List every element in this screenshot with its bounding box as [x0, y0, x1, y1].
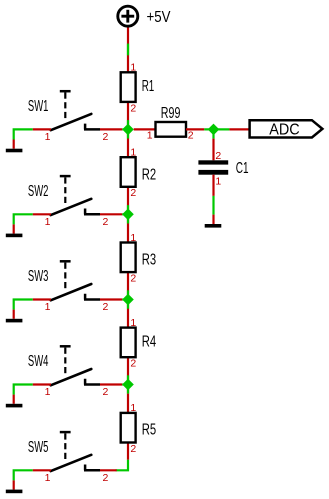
switch SW4 [51, 346, 100, 385]
svg-text:SW5: SW5 [28, 439, 49, 456]
svg-text:1: 1 [130, 232, 136, 244]
switch SW1 [51, 91, 100, 130]
wire node E green segment [204, 128, 229, 130]
svg-text:2: 2 [103, 301, 109, 313]
svg-text:2: 2 [130, 187, 136, 199]
wire R99 pin 2 to node E [186, 128, 204, 130]
wire ground to SW4 pin 1 (green) [14, 385, 33, 395]
wire ground to SW1 pin 1 (green) [14, 129, 33, 139]
junction node D (SW4) [122, 379, 134, 391]
svg-text:1: 1 [147, 129, 153, 141]
wire corner to SW5 pin 2 (green) [116, 460, 128, 471]
svg-text:2: 2 [103, 216, 109, 228]
wire SW3 pin 2 to bus [100, 298, 122, 300]
resistor R5 [121, 413, 136, 443]
resistor R2 [121, 157, 136, 187]
wire SW1 pin 2 to bus [100, 128, 122, 130]
junction node E (R99/C1/ADC) [208, 124, 220, 136]
wire C1 pin 2 lead [212, 139, 214, 161]
resistor R3 [121, 243, 136, 273]
wire node C green segment [127, 290, 129, 308]
svg-text:2: 2 [103, 386, 109, 398]
wire node D green segment [127, 375, 129, 393]
svg-text:2: 2 [130, 102, 136, 114]
svg-text:1: 1 [130, 147, 136, 159]
svg-text:2: 2 [215, 150, 221, 162]
svg-text:1: 1 [45, 131, 51, 143]
svg-text:+5V: +5V [147, 9, 172, 26]
svg-text:1: 1 [130, 402, 136, 414]
resistor R99 [156, 122, 187, 137]
wire R3 pin 2 to node C [127, 272, 129, 328]
wire green at junction (SW1) [122, 128, 128, 130]
wire R4 pin 2 to node D [127, 357, 129, 394]
svg-text:1: 1 [45, 301, 51, 313]
junction node A (R1/R99/R2/SW1) [122, 124, 134, 136]
ground symbol (SW4) [6, 404, 23, 408]
svg-text:2: 2 [130, 358, 136, 370]
wire green at junction (SW4) [122, 383, 128, 385]
wire node E down green segment [212, 129, 214, 138]
ground symbol (SW3) [6, 319, 23, 323]
junction node B (SW2) [122, 209, 134, 221]
svg-text:2: 2 [103, 131, 109, 143]
svg-text:ADC: ADC [269, 121, 299, 138]
wire SW5 pin 2 lead [100, 469, 117, 471]
svg-text:SW2: SW2 [28, 183, 49, 200]
wire node A green segment [127, 120, 129, 138]
svg-text:2: 2 [130, 273, 136, 285]
svg-text:R3: R3 [142, 252, 156, 269]
svg-text:1: 1 [130, 62, 136, 74]
wire node A to R99 pin 1 [134, 128, 156, 130]
ground symbol (SW2) [6, 234, 23, 238]
wire SW2 pin 2 to bus [100, 213, 122, 215]
svg-text:R99: R99 [161, 105, 181, 122]
svg-text:1: 1 [45, 216, 51, 228]
wire ground to SW5 pin 1 (green) [14, 470, 33, 480]
wire ground to SW2 pin 1 (green) [14, 214, 33, 224]
switch SW2 [51, 176, 100, 215]
svg-text:SW3: SW3 [28, 268, 49, 285]
wire node B green segment [127, 205, 129, 223]
svg-text:C1: C1 [236, 160, 249, 177]
power +5V supply symbol P1 [118, 6, 138, 26]
svg-text:SW1: SW1 [28, 98, 49, 115]
svg-text:2: 2 [188, 129, 194, 141]
junction node C (SW3) [122, 294, 134, 306]
svg-text:1: 1 [45, 386, 51, 398]
wire R5 pin 2 to corner [127, 443, 129, 460]
svg-text:R5: R5 [142, 422, 156, 439]
wire SW3 pin 1 lead [33, 298, 51, 300]
wire green at junction (SW2) [122, 213, 128, 215]
wire +5V net green segment [127, 44, 129, 56]
wire SW1 pin 1 lead [33, 128, 51, 130]
svg-text:2: 2 [103, 472, 109, 484]
svg-text:2: 2 [130, 443, 136, 455]
wire SW4 pin 1 lead [33, 383, 51, 385]
switch SW5 [51, 432, 100, 471]
wire SW2 pin 1 lead [33, 213, 51, 215]
wire ground pin lead [212, 215, 214, 224]
svg-text:1: 1 [130, 317, 136, 329]
resistor R4 [121, 328, 136, 358]
ground symbol (SW1) [6, 149, 23, 153]
wire ground pin lead (SW1) [13, 140, 15, 149]
wire SW5 pin 1 lead [33, 469, 51, 471]
wire ground pin lead (SW3) [13, 310, 15, 319]
svg-text:SW4: SW4 [28, 353, 49, 370]
switch SW3 [51, 261, 100, 300]
wire SW4 pin 2 to bus [100, 383, 122, 385]
svg-text:1: 1 [45, 472, 51, 484]
wire R2 pin 2 to node B [127, 187, 129, 243]
wire +5V net vertical (P1 pin to R1 pin 1) [127, 26, 129, 72]
wire R1 pin 2 to node A [127, 102, 129, 157]
wire ground pin lead (SW2) [13, 224, 15, 233]
resistor R1 [121, 72, 136, 102]
wire green at junction (SW3) [122, 298, 128, 300]
ground symbol (C1) [205, 224, 222, 228]
svg-text:R1: R1 [142, 78, 155, 95]
capacitor C1 [198, 160, 228, 174]
wire node E to ADC flag [229, 128, 249, 130]
svg-text:R4: R4 [142, 334, 157, 351]
svg-text:1: 1 [215, 176, 221, 188]
wire to ground (green) [212, 196, 214, 215]
wire ground pin lead (SW4) [13, 395, 15, 404]
ground symbol (SW5) [6, 490, 23, 494]
net flag ADC [250, 120, 323, 137]
wire ground to SW3 pin 1 (green) [14, 300, 33, 310]
wire C1 pin 1 lead [212, 175, 214, 196]
wire ground pin lead (SW5) [13, 480, 15, 489]
wire R5 pin 1 lead [127, 394, 129, 413]
svg-text:R2: R2 [142, 166, 156, 183]
